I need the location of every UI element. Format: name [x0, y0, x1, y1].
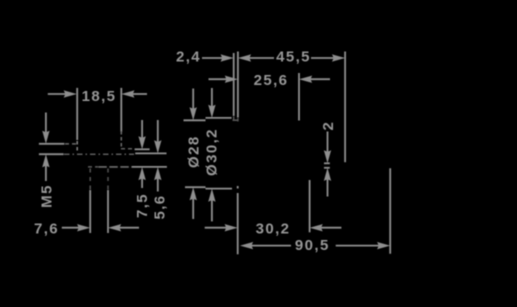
svg-text:5,6: 5,6 [151, 194, 168, 219]
svg-text:18,5: 18,5 [82, 88, 117, 105]
svg-text:25,6: 25,6 [254, 72, 289, 89]
svg-text:45,5: 45,5 [276, 48, 311, 65]
svg-text:7,5: 7,5 [134, 193, 151, 218]
svg-text:M5: M5 [38, 184, 55, 208]
svg-text:7,6: 7,6 [34, 220, 59, 237]
svg-text:Ø28: Ø28 [185, 135, 202, 168]
svg-text:2: 2 [320, 121, 337, 131]
svg-text:2,4: 2,4 [176, 48, 201, 65]
svg-text:90,5: 90,5 [295, 237, 330, 254]
svg-text:Ø30,2: Ø30,2 [203, 128, 220, 176]
svg-text:30,2: 30,2 [256, 220, 291, 237]
